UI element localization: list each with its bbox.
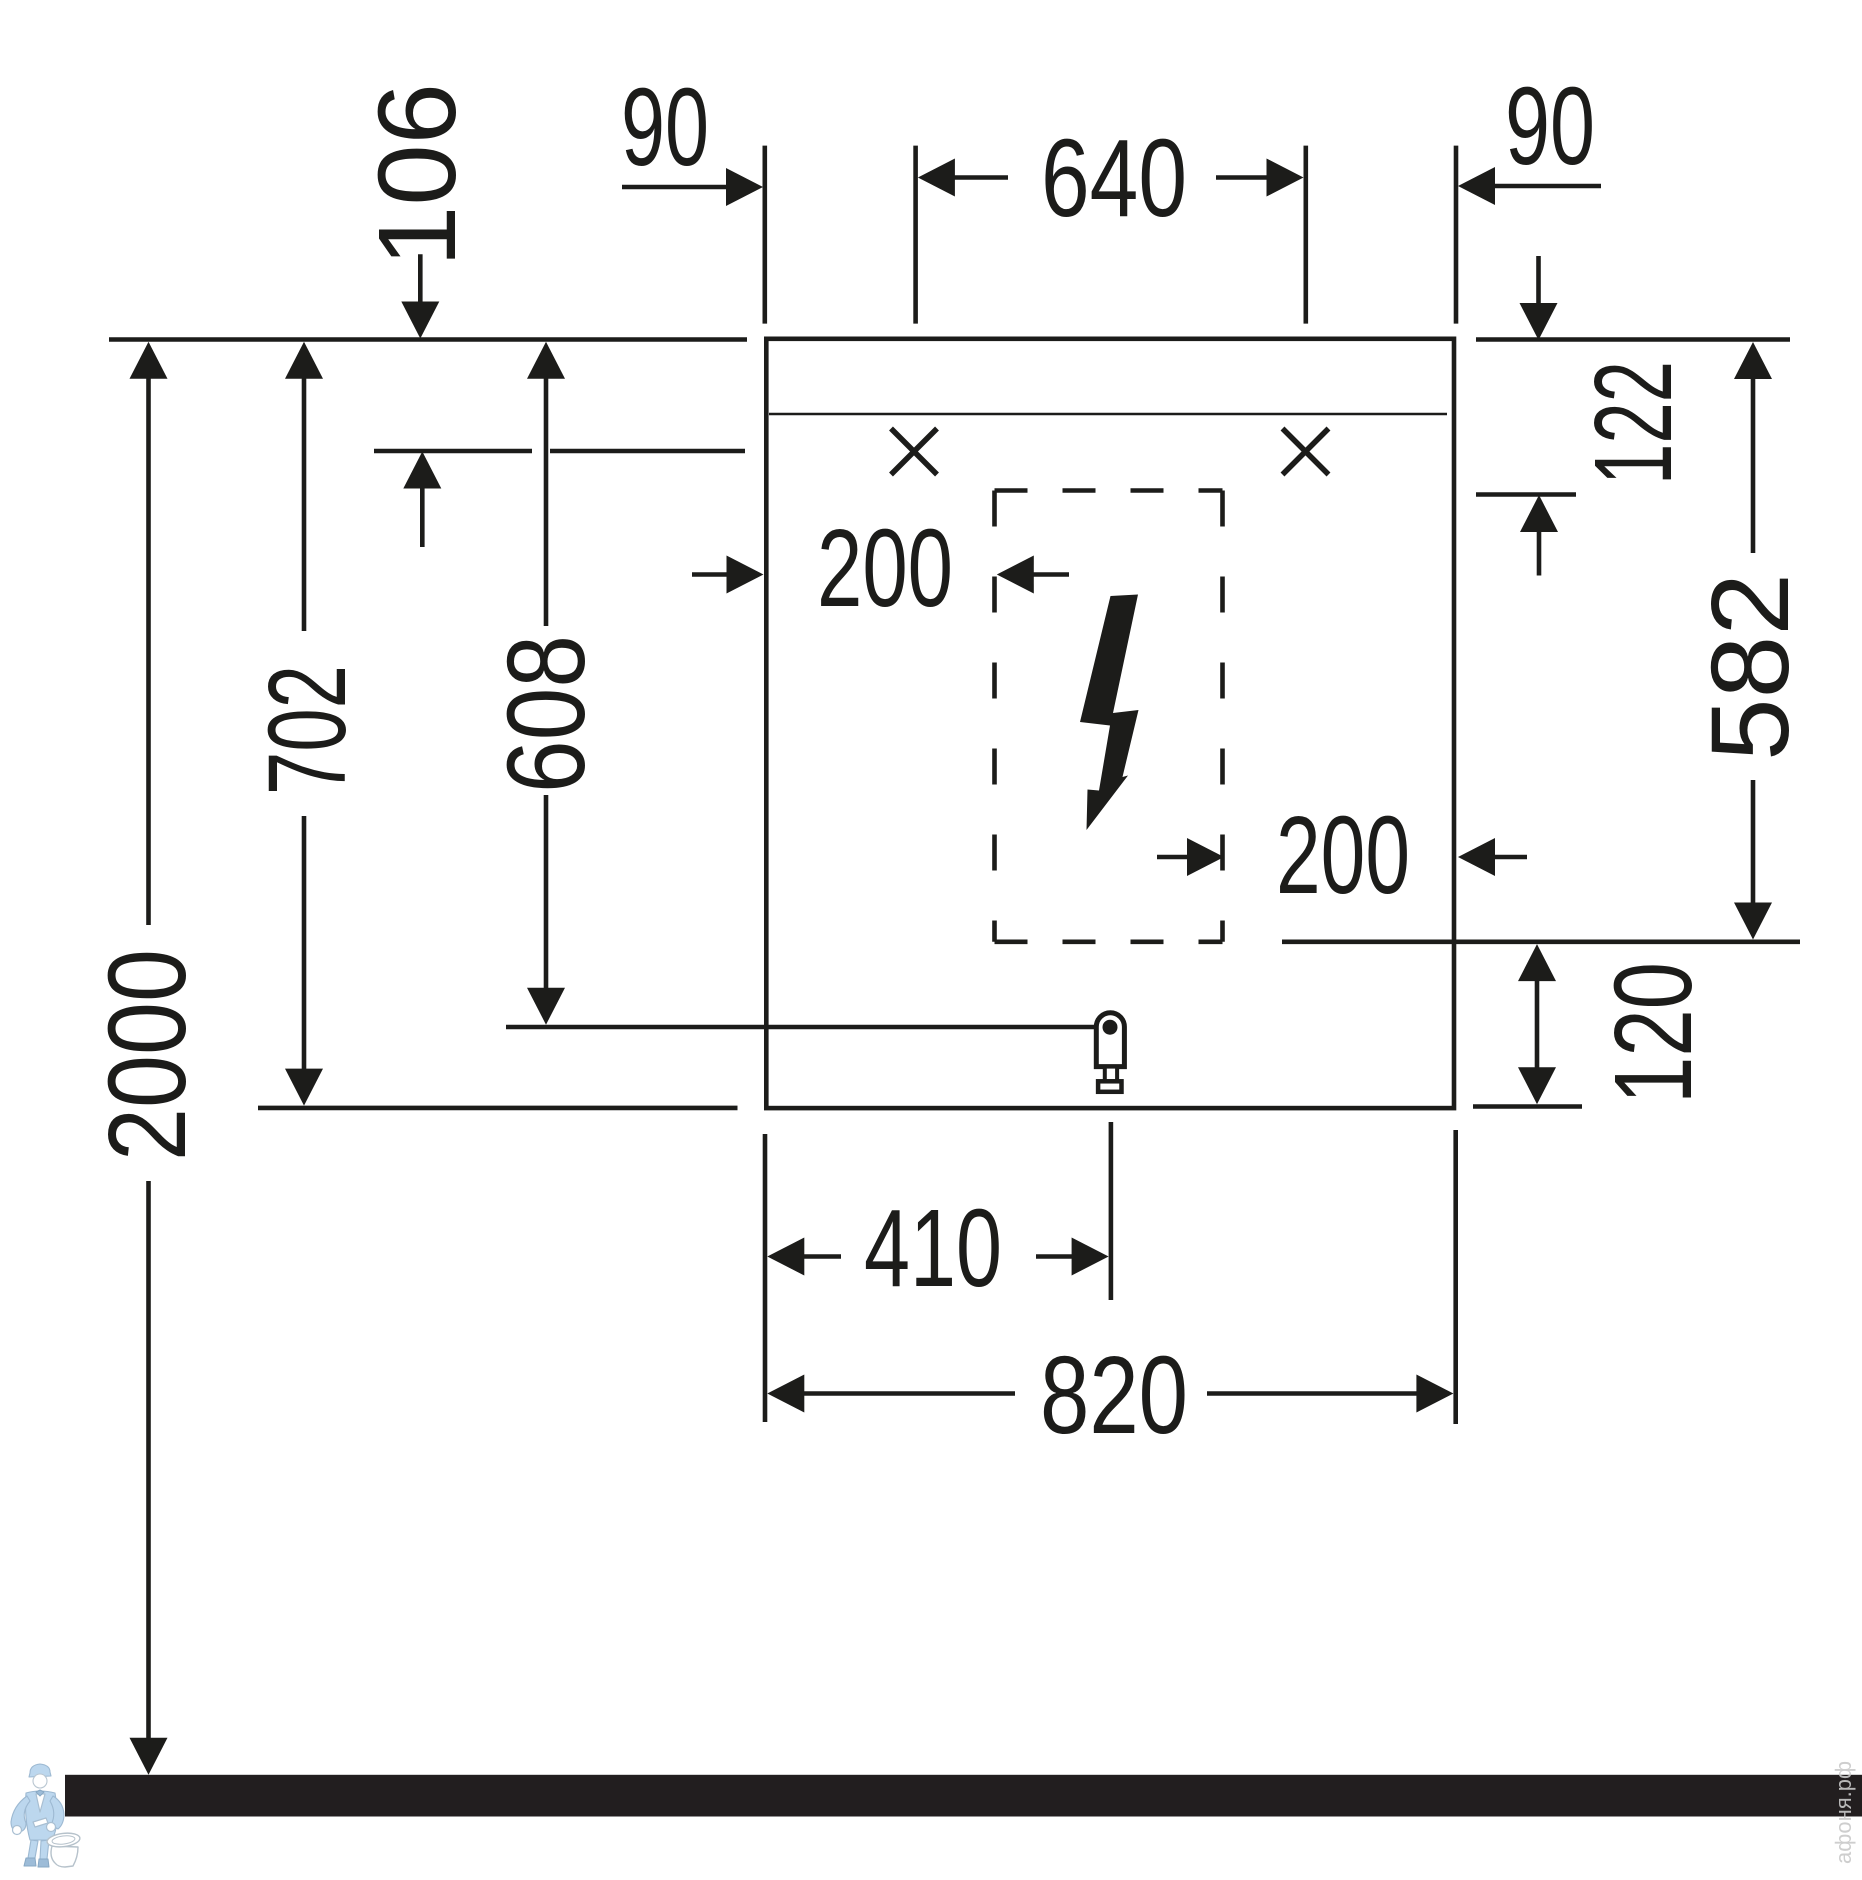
svg-text:90: 90 [621,66,709,189]
svg-text:106: 106 [356,83,479,267]
svg-text:афоня.рф: афоня.рф [1831,1761,1856,1864]
svg-text:582: 582 [1689,573,1812,761]
svg-text:120: 120 [1592,962,1715,1104]
svg-text:200: 200 [1276,794,1410,917]
svg-text:702: 702 [246,665,369,795]
svg-text:2000: 2000 [86,949,209,1161]
svg-text:820: 820 [1040,1334,1188,1457]
svg-text:608: 608 [485,635,608,793]
svg-text:410: 410 [864,1187,1002,1310]
svg-text:122: 122 [1572,361,1695,485]
svg-text:90: 90 [1505,65,1595,188]
svg-text:200: 200 [817,507,953,630]
svg-text:640: 640 [1041,117,1187,240]
